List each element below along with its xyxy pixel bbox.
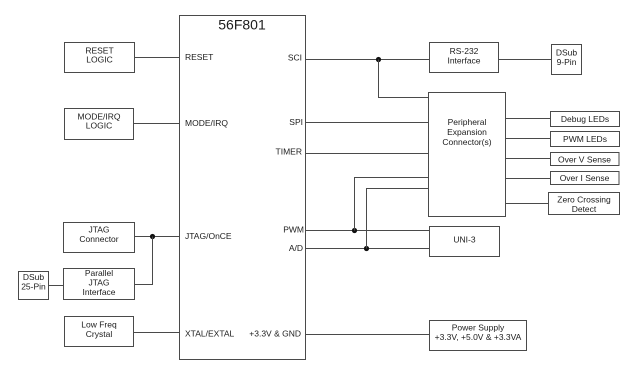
block Peripheral Expansion Connector(s): [429, 93, 506, 217]
svg-text:PWM: PWM: [283, 225, 304, 235]
svg-text:DSub: DSub: [556, 48, 578, 58]
wire Peripheral to Over I Sense: [506, 178, 551, 180]
block Over I Sense: [551, 172, 620, 185]
wire Peripheral to Zero Crossing Detect: [506, 203, 549, 205]
svg-text:56F801: 56F801: [218, 17, 266, 33]
block UNI-3: [430, 227, 500, 257]
svg-text:RESET: RESET: [185, 52, 213, 62]
block 56F801 main MCU box: [180, 16, 306, 360]
wire Peripheral to Over V Sense: [506, 158, 551, 160]
svg-text:Zero Crossing: Zero Crossing: [557, 195, 611, 205]
svg-text:Connector: Connector: [79, 234, 118, 244]
block Parallel JTAG Interface: [64, 268, 135, 300]
svg-text:+3.3V, +5.0V & +3.3VA: +3.3V, +5.0V & +3.3VA: [435, 332, 522, 342]
svg-text:Peripheral: Peripheral: [448, 117, 487, 127]
junction dot PWM net: [352, 228, 357, 233]
wire JTAG Connector to JTAG/OnCE: [135, 236, 180, 238]
svg-text:Connector(s): Connector(s): [442, 137, 491, 147]
junction dot JTAG net: [150, 234, 155, 239]
wire A/D to UNI-3: [306, 248, 430, 250]
wire PWM to UNI-3: [306, 230, 430, 232]
svg-text:Power Supply: Power Supply: [452, 323, 505, 333]
svg-text:Detect: Detect: [572, 204, 597, 214]
junction dot SCI net: [376, 57, 381, 62]
block PWM LEDs: [551, 132, 620, 147]
svg-text:JTAG: JTAG: [88, 225, 109, 235]
svg-text:TIMER: TIMER: [276, 147, 302, 157]
svg-text:Interface: Interface: [82, 287, 115, 297]
wire vertical JTAG net to Parallel JTAG Interface: [135, 237, 153, 285]
wire +3.3V & GND to Power Supply: [306, 334, 430, 336]
svg-text:JTAG: JTAG: [88, 278, 109, 288]
wire MODE/IRQ LOGIC to MODE/IRQ: [134, 123, 180, 125]
svg-text:Debug LEDs: Debug LEDs: [561, 114, 609, 124]
block Debug LEDs: [551, 112, 620, 127]
svg-text:LOGIC: LOGIC: [86, 121, 112, 131]
wire A/D branch to Peripheral Expansion Connector: [367, 189, 429, 249]
wire TIMER to Peripheral Expansion Connector: [306, 153, 429, 155]
block RS-232 Interface: [430, 43, 499, 73]
svg-text:Over I Sense: Over I Sense: [560, 173, 610, 183]
wire RS-232 Interface to DSub 9-Pin: [499, 59, 552, 61]
block RESET LOGIC: [65, 43, 135, 73]
svg-text:+3.3V & GND: +3.3V & GND: [249, 329, 301, 339]
wire Low Freq Crystal to XTAL/EXTAL: [134, 332, 180, 334]
svg-text:Expansion: Expansion: [447, 127, 487, 137]
wire Peripheral to Debug LEDs: [506, 118, 551, 120]
svg-text:Over V Sense: Over V Sense: [558, 155, 611, 165]
svg-text:A/D: A/D: [289, 243, 303, 253]
block DSub 9-Pin: [552, 45, 582, 75]
svg-text:XTAL/EXTAL: XTAL/EXTAL: [185, 329, 235, 339]
svg-text:DSub: DSub: [23, 272, 45, 282]
wire PWM branch to Peripheral Expansion Connector: [355, 178, 429, 231]
svg-text:UNI-3: UNI-3: [453, 235, 475, 245]
svg-text:MODE/IRQ: MODE/IRQ: [185, 118, 228, 128]
svg-text:JTAG/OnCE: JTAG/OnCE: [185, 231, 232, 241]
block DSub 25-Pin: [19, 272, 49, 300]
junction dot A/D net: [364, 246, 369, 251]
svg-text:LOGIC: LOGIC: [86, 55, 112, 65]
block Low Freq Crystal: [65, 317, 134, 347]
wire SCI to RS-232 Interface: [306, 59, 430, 61]
svg-text:SCI: SCI: [288, 53, 302, 63]
wire SCI branch to Peripheral Expansion Connector: [379, 60, 429, 98]
svg-text:PWM LEDs: PWM LEDs: [563, 134, 607, 144]
svg-text:RS-232: RS-232: [450, 46, 479, 56]
svg-text:25-Pin: 25-Pin: [21, 282, 46, 292]
block Power Supply: [430, 321, 527, 351]
svg-text:Parallel: Parallel: [85, 268, 113, 278]
wire DSub 25-Pin to Parallel JTAG Interface: [49, 285, 64, 287]
svg-text:Interface: Interface: [447, 56, 480, 66]
block JTAG Connector: [64, 223, 135, 253]
wire SPI to Peripheral Expansion Connector: [306, 122, 429, 124]
wire RESET LOGIC to RESET: [135, 57, 180, 59]
svg-text:9-Pin: 9-Pin: [557, 57, 577, 67]
wire Peripheral to PWM LEDs: [506, 138, 551, 140]
block MODE/IRQ LOGIC: [65, 109, 134, 140]
block Over V Sense: [551, 153, 620, 166]
svg-text:SPI: SPI: [289, 117, 303, 127]
svg-text:Crystal: Crystal: [86, 329, 113, 339]
svg-text:Low Freq: Low Freq: [81, 320, 117, 330]
block Zero Crossing Detect: [549, 193, 620, 215]
